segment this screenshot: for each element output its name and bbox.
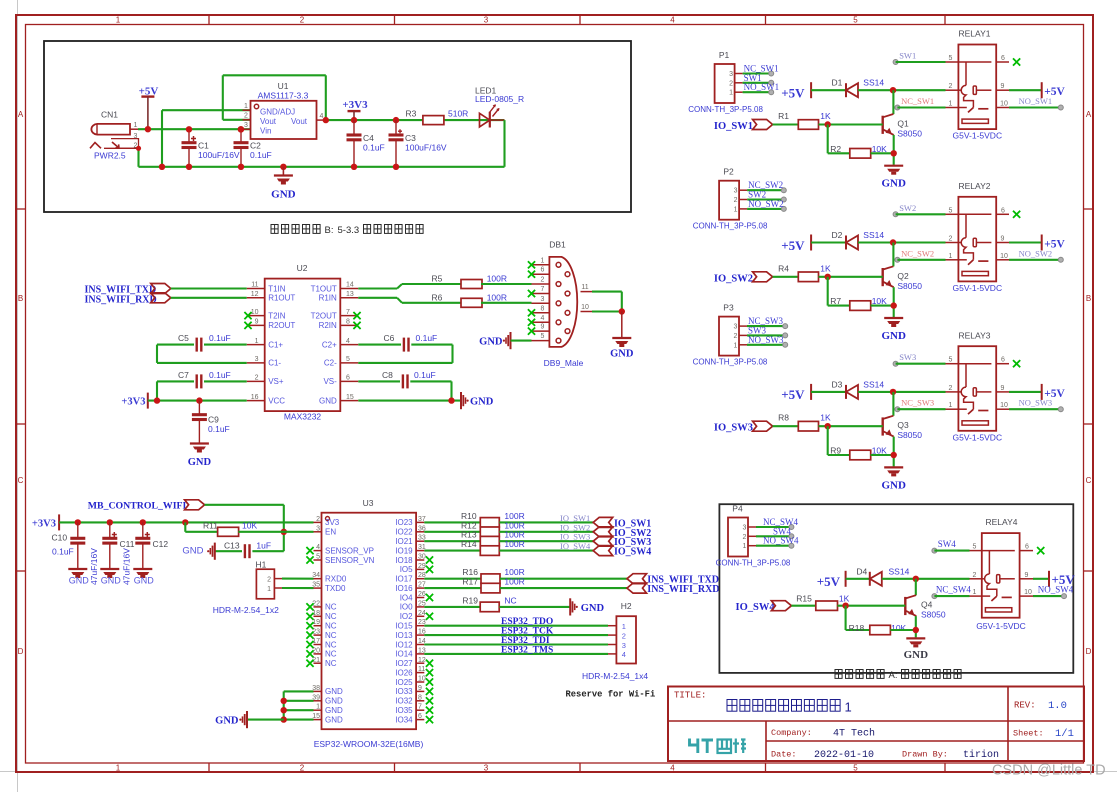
- svg-text:5: 5: [316, 554, 320, 561]
- svg-text:IO34: IO34: [395, 715, 413, 724]
- svg-text:0.1uF: 0.1uF: [208, 424, 230, 434]
- svg-text:30: 30: [418, 554, 426, 561]
- svg-text:6: 6: [418, 713, 422, 720]
- svg-text:GND: GND: [470, 397, 494, 408]
- svg-text:GND: GND: [325, 706, 343, 715]
- svg-text:VS+: VS+: [268, 377, 284, 386]
- svg-text:IO17: IO17: [395, 575, 413, 584]
- svg-text:1K: 1K: [820, 413, 831, 423]
- svg-text:10: 10: [581, 304, 589, 311]
- svg-text:Date:: Date:: [771, 750, 797, 760]
- svg-text:Q1: Q1: [897, 119, 909, 129]
- svg-text:C: C: [1086, 476, 1092, 485]
- svg-text:3: 3: [484, 764, 489, 773]
- svg-text:TXD0: TXD0: [325, 584, 346, 593]
- svg-text:U2: U2: [297, 263, 308, 273]
- svg-text:GND: GND: [134, 576, 155, 586]
- svg-text:C9: C9: [208, 415, 219, 425]
- svg-text:T2IN: T2IN: [268, 311, 286, 320]
- svg-text:2: 2: [300, 764, 305, 773]
- svg-text:IO15: IO15: [395, 622, 413, 631]
- svg-text:R2OUT: R2OUT: [268, 321, 295, 330]
- svg-text:R2IN: R2IN: [319, 321, 337, 330]
- svg-text:SW2: SW2: [899, 203, 916, 213]
- svg-text:R3: R3: [406, 109, 417, 119]
- svg-text:IO0: IO0: [400, 603, 413, 612]
- svg-text:GND: GND: [182, 546, 203, 557]
- svg-text:GND: GND: [101, 576, 122, 586]
- svg-text:12: 12: [418, 657, 426, 664]
- svg-text:1: 1: [729, 90, 733, 97]
- svg-text:ESP32-WROOM-32E(16MB): ESP32-WROOM-32E(16MB): [314, 739, 424, 749]
- svg-text:7: 7: [418, 704, 422, 711]
- svg-text:9: 9: [541, 324, 545, 331]
- svg-text:Vin: Vin: [260, 127, 271, 136]
- svg-text:RELAY4: RELAY4: [986, 517, 1018, 527]
- svg-text:D1: D1: [832, 78, 843, 88]
- svg-text:GND: GND: [319, 396, 337, 405]
- svg-text:+3V3: +3V3: [342, 99, 368, 111]
- svg-text:R1IN: R1IN: [319, 294, 337, 303]
- svg-text:7: 7: [346, 309, 350, 316]
- svg-text:NC_SW4: NC_SW4: [936, 585, 972, 595]
- svg-text:IO25: IO25: [395, 678, 413, 687]
- svg-text:9: 9: [1001, 236, 1005, 243]
- svg-text:+5V: +5V: [139, 86, 159, 98]
- svg-text:GND/ADJ: GND/ADJ: [260, 108, 295, 117]
- svg-text:S8050: S8050: [897, 281, 922, 291]
- svg-text:NO_SW3: NO_SW3: [1019, 398, 1053, 408]
- svg-text:IO_SW3: IO_SW3: [714, 423, 753, 434]
- svg-text:DB1: DB1: [549, 240, 566, 250]
- svg-text:1.0: 1.0: [1048, 700, 1067, 712]
- svg-text:5: 5: [949, 357, 953, 364]
- svg-text:6: 6: [1025, 544, 1029, 551]
- svg-text:G5V-1-5VDC: G5V-1-5VDC: [952, 131, 1002, 141]
- svg-text:1: 1: [244, 103, 248, 110]
- svg-text:T1IN: T1IN: [268, 284, 286, 293]
- svg-text:R2: R2: [830, 144, 841, 154]
- svg-text:C2-: C2-: [324, 359, 337, 368]
- svg-text:EN: EN: [325, 528, 336, 537]
- svg-text:6: 6: [346, 375, 350, 382]
- svg-text:3: 3: [255, 356, 259, 363]
- svg-text:SW1: SW1: [899, 51, 916, 61]
- svg-text:SS14: SS14: [889, 566, 910, 576]
- svg-text:2: 2: [734, 197, 738, 204]
- svg-text:1: 1: [116, 764, 121, 773]
- svg-text:9: 9: [1001, 83, 1005, 90]
- svg-text:1K: 1K: [820, 111, 831, 121]
- svg-text:5: 5: [541, 333, 545, 340]
- svg-text:HDR-M-2.54_1x2: HDR-M-2.54_1x2: [213, 605, 279, 615]
- svg-text:R19: R19: [462, 595, 478, 605]
- svg-text:100uF/16V: 100uF/16V: [405, 143, 447, 153]
- svg-text:GND: GND: [271, 189, 296, 201]
- svg-text:D: D: [1086, 647, 1092, 656]
- svg-text:C8: C8: [382, 370, 393, 380]
- svg-text:IO_SW1: IO_SW1: [714, 121, 753, 132]
- svg-text:5: 5: [973, 544, 977, 551]
- svg-text:NC: NC: [325, 603, 337, 612]
- svg-text:P4: P4: [732, 504, 743, 514]
- svg-text:C1+: C1+: [268, 340, 283, 349]
- svg-text:1/1: 1/1: [1055, 728, 1074, 740]
- svg-text:T1OUT: T1OUT: [311, 284, 337, 293]
- svg-text:4T Tech: 4T Tech: [833, 728, 875, 740]
- svg-text:VS-: VS-: [323, 377, 337, 386]
- svg-text:15: 15: [346, 394, 354, 401]
- svg-text:Company:: Company:: [771, 728, 812, 738]
- svg-text:+5V: +5V: [781, 238, 805, 253]
- svg-text:R5: R5: [432, 274, 443, 284]
- svg-text:1: 1: [949, 253, 953, 260]
- svg-text:IO33: IO33: [395, 687, 413, 696]
- svg-text:NC_SW2: NC_SW2: [901, 248, 934, 258]
- svg-text:INS_WIFI_RXD: INS_WIFI_RXD: [85, 294, 157, 305]
- svg-text:R14: R14: [461, 539, 477, 549]
- svg-text:24: 24: [418, 610, 426, 617]
- svg-text:S8050: S8050: [897, 129, 922, 139]
- svg-text:G5V-1-5VDC: G5V-1-5VDC: [952, 432, 1002, 442]
- svg-text:H2: H2: [621, 601, 632, 611]
- svg-text:D4: D4: [856, 566, 867, 576]
- svg-text:3: 3: [484, 16, 489, 25]
- svg-text:IO14: IO14: [395, 650, 413, 659]
- svg-text:AMS1117-3.3: AMS1117-3.3: [258, 91, 309, 101]
- svg-text:8: 8: [418, 694, 422, 701]
- svg-text:14: 14: [346, 282, 354, 289]
- svg-text:1: 1: [267, 586, 271, 593]
- svg-text:1: 1: [845, 700, 852, 715]
- svg-text:1K: 1K: [820, 263, 831, 273]
- svg-text:R1: R1: [778, 111, 789, 121]
- svg-text:+5V: +5V: [781, 86, 805, 101]
- svg-text:B:: B:: [325, 225, 334, 236]
- svg-text:Reserve for Wi-Fi: Reserve for Wi-Fi: [566, 690, 656, 700]
- svg-text:SENSOR_VP: SENSOR_VP: [325, 546, 374, 555]
- svg-text:A:: A:: [889, 670, 898, 681]
- svg-text:TITLE:: TITLE:: [674, 691, 706, 701]
- svg-text:RELAY3: RELAY3: [959, 330, 991, 340]
- svg-text:P3: P3: [723, 303, 734, 313]
- svg-text:C13: C13: [224, 540, 240, 550]
- svg-text:1K: 1K: [839, 594, 850, 604]
- svg-text:G5V-1-5VDC: G5V-1-5VDC: [976, 621, 1026, 631]
- svg-text:10K: 10K: [891, 623, 906, 633]
- svg-text:2: 2: [734, 333, 738, 340]
- svg-text:A: A: [1086, 110, 1092, 119]
- svg-text:3: 3: [734, 188, 738, 195]
- svg-text:IO5: IO5: [400, 565, 413, 574]
- svg-text:NO_SW1: NO_SW1: [744, 82, 780, 92]
- svg-text:C5: C5: [178, 333, 189, 343]
- svg-text:NC: NC: [325, 650, 337, 659]
- svg-text:5: 5: [853, 764, 858, 773]
- svg-text:1: 1: [255, 338, 259, 345]
- svg-text:REV:: REV:: [1014, 701, 1036, 711]
- svg-text:GND: GND: [325, 715, 343, 724]
- svg-text:CONN-TH_3P-P5.08: CONN-TH_3P-P5.08: [693, 358, 768, 367]
- svg-text:NO_SW3: NO_SW3: [748, 335, 784, 345]
- svg-text:SENSOR_VN: SENSOR_VN: [325, 556, 375, 565]
- svg-text:10K: 10K: [242, 520, 257, 530]
- svg-text:tirion: tirion: [963, 749, 999, 761]
- svg-text:VCC: VCC: [268, 396, 285, 405]
- svg-text:IO_SW4: IO_SW4: [560, 541, 591, 551]
- svg-text:47uF/16V: 47uF/16V: [122, 548, 132, 585]
- svg-text:2: 2: [949, 83, 953, 90]
- svg-text:2: 2: [267, 576, 271, 583]
- svg-text:6: 6: [1001, 357, 1005, 364]
- svg-text:Drawn By:: Drawn By:: [902, 750, 948, 760]
- svg-text:CSDN @Little TD: CSDN @Little TD: [992, 763, 1106, 779]
- svg-text:U1: U1: [278, 81, 289, 91]
- svg-text:NC: NC: [325, 631, 337, 640]
- svg-text:1: 1: [134, 122, 138, 129]
- svg-text:C: C: [18, 476, 24, 485]
- svg-text:0.1uF: 0.1uF: [414, 370, 436, 380]
- svg-text:GND: GND: [479, 337, 503, 348]
- svg-text:29: 29: [418, 563, 426, 570]
- svg-text:11: 11: [251, 282, 258, 289]
- svg-text:GND: GND: [610, 349, 634, 360]
- svg-text:NC: NC: [325, 612, 337, 621]
- svg-text:P2: P2: [723, 167, 734, 177]
- svg-text:11: 11: [418, 666, 425, 673]
- svg-text:IO_SW4: IO_SW4: [736, 602, 776, 613]
- svg-text:5: 5: [853, 16, 858, 25]
- svg-text:1: 1: [622, 622, 626, 631]
- svg-text:C2+: C2+: [322, 340, 337, 349]
- svg-text:NC_SW1: NC_SW1: [901, 96, 934, 106]
- svg-text:10: 10: [1000, 101, 1008, 108]
- svg-text:2: 2: [949, 236, 953, 243]
- svg-text:5: 5: [346, 356, 350, 363]
- svg-text:INS_WIFI_RXD: INS_WIFI_RXD: [647, 584, 719, 595]
- svg-text:C7: C7: [178, 370, 189, 380]
- svg-text:GND: GND: [325, 697, 343, 706]
- svg-text:6: 6: [1001, 207, 1005, 214]
- svg-text:100R: 100R: [504, 577, 524, 587]
- svg-text:NO_SW1: NO_SW1: [1019, 96, 1053, 106]
- svg-text:GND: GND: [215, 716, 239, 727]
- svg-text:SW4: SW4: [938, 539, 957, 549]
- svg-text:1: 1: [734, 206, 738, 213]
- svg-text:H1: H1: [256, 560, 267, 570]
- svg-text:S8050: S8050: [897, 430, 922, 440]
- svg-text:C1: C1: [198, 141, 209, 151]
- svg-text:2: 2: [729, 80, 733, 87]
- svg-text:R15: R15: [796, 594, 812, 604]
- svg-text:SS14: SS14: [863, 379, 884, 389]
- svg-text:G5V-1-5VDC: G5V-1-5VDC: [952, 283, 1002, 293]
- svg-text:C1-: C1-: [268, 359, 281, 368]
- svg-text:GND: GND: [881, 479, 906, 491]
- svg-text:6: 6: [541, 267, 545, 274]
- svg-text:Q2: Q2: [897, 271, 909, 281]
- svg-text:8: 8: [346, 319, 350, 326]
- svg-text:CN1: CN1: [101, 110, 118, 120]
- svg-text:1: 1: [116, 16, 121, 25]
- svg-text:IO16: IO16: [395, 584, 413, 593]
- svg-text:4: 4: [541, 315, 545, 322]
- svg-text:R4: R4: [778, 263, 789, 273]
- svg-text:5: 5: [949, 55, 953, 62]
- svg-text:HDR-M-2.54_1x4: HDR-M-2.54_1x4: [582, 671, 648, 681]
- svg-text:IO18: IO18: [395, 556, 413, 565]
- svg-text:D: D: [18, 647, 24, 656]
- svg-text:D3: D3: [832, 379, 843, 389]
- svg-text:12: 12: [251, 291, 259, 298]
- svg-text:Vout: Vout: [260, 117, 277, 126]
- svg-text:R1OUT: R1OUT: [268, 294, 295, 303]
- svg-text:4: 4: [670, 16, 675, 25]
- svg-text:11: 11: [581, 284, 588, 291]
- svg-text:4: 4: [346, 338, 350, 345]
- svg-text:0.1uF: 0.1uF: [250, 150, 272, 160]
- svg-text:2022-01-10: 2022-01-10: [814, 750, 874, 761]
- svg-text:47uF/16V: 47uF/16V: [89, 548, 99, 585]
- svg-text:2: 2: [743, 534, 747, 541]
- svg-text:CONN-TH_3P-P5.08: CONN-TH_3P-P5.08: [716, 559, 791, 568]
- svg-text:16: 16: [251, 394, 259, 401]
- svg-text:2: 2: [316, 516, 320, 523]
- svg-text:10: 10: [418, 676, 426, 683]
- svg-text:Vout: Vout: [291, 117, 308, 126]
- svg-text:IO32: IO32: [395, 697, 413, 706]
- svg-text:3V3: 3V3: [325, 518, 340, 527]
- svg-text:NO_SW4: NO_SW4: [1038, 585, 1074, 595]
- svg-text:8: 8: [541, 305, 545, 312]
- svg-text:3: 3: [729, 71, 733, 78]
- svg-text:IO_SW4: IO_SW4: [614, 547, 651, 558]
- svg-text:IO22: IO22: [395, 528, 413, 537]
- svg-text:3: 3: [734, 324, 738, 331]
- svg-text:9: 9: [1001, 385, 1005, 392]
- svg-text:100R: 100R: [487, 274, 507, 284]
- svg-text:100R: 100R: [504, 539, 524, 549]
- svg-text:B: B: [18, 294, 23, 303]
- svg-text:CONN-TH_3P-P5.08: CONN-TH_3P-P5.08: [688, 105, 763, 114]
- svg-text:0.1uF: 0.1uF: [209, 333, 231, 343]
- svg-text:S8050: S8050: [921, 610, 946, 620]
- svg-text:R17: R17: [462, 577, 478, 587]
- svg-text:MAX3232: MAX3232: [284, 412, 322, 422]
- svg-text:Sheet:: Sheet:: [1013, 729, 1044, 739]
- svg-text:C2: C2: [250, 141, 261, 151]
- svg-text:DB9_Male: DB9_Male: [544, 358, 584, 368]
- svg-text:2: 2: [255, 375, 259, 382]
- svg-text:CONN-TH_3P-P5.08: CONN-TH_3P-P5.08: [693, 222, 768, 231]
- svg-text:A: A: [18, 110, 24, 119]
- svg-text:NC_SW3: NC_SW3: [901, 398, 934, 408]
- svg-text:IO4: IO4: [400, 593, 413, 602]
- svg-text:100uF/16V: 100uF/16V: [198, 150, 240, 160]
- svg-text:1: 1: [949, 101, 953, 108]
- svg-text:4: 4: [316, 544, 320, 551]
- svg-text:C4: C4: [363, 133, 374, 143]
- svg-text:RXD0: RXD0: [325, 575, 347, 584]
- svg-text:RELAY1: RELAY1: [959, 29, 991, 39]
- svg-text:MB_CONTROL_WIFI: MB_CONTROL_WIFI: [88, 501, 187, 512]
- svg-text:R11: R11: [203, 520, 218, 530]
- svg-text:B: B: [1086, 294, 1091, 303]
- svg-text:510R: 510R: [448, 109, 468, 119]
- svg-text:10: 10: [1024, 589, 1032, 596]
- svg-text:R18: R18: [849, 623, 865, 633]
- svg-text:ESP32_TMS: ESP32_TMS: [501, 645, 553, 655]
- svg-text:GND: GND: [881, 178, 906, 190]
- svg-text:R6: R6: [432, 293, 443, 303]
- svg-text:1uF: 1uF: [256, 540, 271, 550]
- svg-text:+5V: +5V: [781, 387, 805, 402]
- svg-text:2: 2: [300, 16, 305, 25]
- svg-text:IO2: IO2: [400, 612, 413, 621]
- svg-text:PWR2.5: PWR2.5: [94, 151, 126, 161]
- svg-text:26: 26: [418, 591, 426, 598]
- svg-text:10: 10: [1000, 253, 1008, 260]
- svg-text:SS14: SS14: [863, 230, 884, 240]
- svg-text:1: 1: [973, 589, 977, 596]
- svg-text:3: 3: [244, 122, 248, 129]
- svg-text:2: 2: [541, 277, 545, 284]
- svg-text:6: 6: [1001, 55, 1005, 62]
- svg-text:C10: C10: [52, 533, 68, 543]
- svg-text:3: 3: [316, 525, 320, 532]
- svg-text:NO_SW2: NO_SW2: [1019, 248, 1053, 258]
- svg-text:4: 4: [670, 764, 675, 773]
- svg-text:IO35: IO35: [395, 706, 413, 715]
- svg-text:RELAY2: RELAY2: [959, 181, 991, 191]
- svg-text:SW3: SW3: [899, 352, 916, 362]
- svg-text:5-3.3: 5-3.3: [338, 225, 360, 236]
- svg-text:R7: R7: [830, 296, 841, 306]
- svg-text:0.1uF: 0.1uF: [209, 370, 231, 380]
- svg-text:9: 9: [1025, 572, 1029, 579]
- svg-text:C12: C12: [153, 539, 169, 549]
- svg-text:10: 10: [1000, 402, 1008, 409]
- svg-text:0.1uF: 0.1uF: [416, 333, 438, 343]
- svg-text:7: 7: [541, 286, 545, 293]
- svg-text:U3: U3: [363, 498, 374, 508]
- svg-text:C6: C6: [384, 333, 395, 343]
- svg-text:0.1uF: 0.1uF: [363, 143, 385, 153]
- svg-text:2: 2: [973, 572, 977, 579]
- svg-text:GND: GND: [581, 603, 605, 614]
- svg-text:IO19: IO19: [395, 546, 413, 555]
- svg-text:+5V: +5V: [817, 574, 841, 589]
- svg-text:1: 1: [743, 543, 747, 550]
- svg-text:NO_SW2: NO_SW2: [748, 199, 784, 209]
- svg-text:1: 1: [949, 402, 953, 409]
- svg-text:IO12: IO12: [395, 640, 413, 649]
- svg-text:IO21: IO21: [395, 537, 413, 546]
- svg-text:IO26: IO26: [395, 668, 413, 677]
- svg-text:D2: D2: [832, 230, 843, 240]
- svg-text:R9: R9: [830, 446, 841, 456]
- svg-text:+3V3: +3V3: [32, 518, 56, 529]
- svg-text:R8: R8: [778, 413, 789, 423]
- svg-text:2: 2: [244, 113, 248, 120]
- svg-text:13: 13: [346, 291, 354, 298]
- svg-text:T2OUT: T2OUT: [311, 311, 337, 320]
- svg-text:IO27: IO27: [395, 659, 413, 668]
- svg-text:100R: 100R: [487, 293, 507, 303]
- svg-text:GND: GND: [904, 649, 929, 661]
- svg-text:IO13: IO13: [395, 631, 413, 640]
- svg-text:4: 4: [622, 650, 626, 659]
